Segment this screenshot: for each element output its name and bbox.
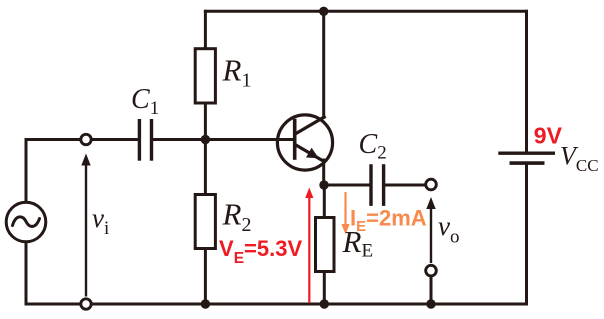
wire: R1 top from supply rail xyxy=(204,11,207,48)
svg-text:C2: C2 xyxy=(359,129,387,164)
svg-text:R1: R1 xyxy=(222,53,252,92)
resistor RE body xyxy=(316,218,335,272)
arrow VE (red, emitter voltage) xyxy=(305,188,313,304)
transistor Q1 body circle xyxy=(277,115,332,170)
wire: battery - down to ground rail xyxy=(525,165,528,304)
node: base node junction xyxy=(201,135,210,144)
svg-text:R2: R2 xyxy=(222,197,252,236)
AC source circle xyxy=(6,202,46,242)
node: RE at ground rail xyxy=(320,299,329,308)
svg-text:vi: vi xyxy=(92,203,109,239)
output terminal top (open circle) xyxy=(426,179,437,190)
wire: bottom ground rail xyxy=(26,303,527,306)
capacitor C2 left plate xyxy=(369,166,372,204)
wire: R2 bottom to ground rail xyxy=(204,249,207,305)
arrow vo (output voltage) xyxy=(426,197,435,263)
transistor emitter stroke xyxy=(296,145,325,162)
wire: C2 to output terminal xyxy=(384,184,431,187)
wire: R1 bottom to base node xyxy=(204,103,207,140)
svg-text:VE=5.3V: VE=5.3V xyxy=(219,236,302,267)
AC source sine symbol xyxy=(13,217,40,227)
transistor emitter arrowhead xyxy=(306,148,319,159)
node: collector joins supply rail xyxy=(319,7,328,16)
wire: AC source bottom to ground rail xyxy=(25,243,28,305)
capacitor C2 right plate xyxy=(382,166,385,204)
resistor R1 body xyxy=(195,49,215,103)
wire: collector up to supply rail xyxy=(322,11,325,117)
output terminal bottom (open circle) xyxy=(426,265,437,276)
battery VCC negative plate xyxy=(511,161,542,165)
svg-text:VCC: VCC xyxy=(560,141,599,175)
input terminal top (open circle) xyxy=(81,134,91,144)
arrow IE (orange, emitter current) xyxy=(341,192,349,235)
input terminal bottom (open circle) xyxy=(81,299,91,309)
battery VCC positive plate xyxy=(500,151,553,154)
node: output branch at ground rail xyxy=(426,299,435,308)
wire: emitter node down to RE xyxy=(323,185,326,218)
transistor collector stroke xyxy=(296,117,325,134)
wire: emitter down to emitter node xyxy=(322,160,325,185)
svg-text:9V: 9V xyxy=(534,123,563,149)
svg-text:C1: C1 xyxy=(131,84,159,119)
arrow vi (input voltage) xyxy=(81,154,90,297)
wire: base node down to R2 xyxy=(204,140,207,195)
capacitor C1 right plate xyxy=(150,121,153,159)
transistor base bar xyxy=(293,121,297,159)
resistor R2 body xyxy=(195,195,215,249)
capacitor C1 left plate xyxy=(138,121,141,159)
wire: RE bottom to ground rail xyxy=(323,272,326,305)
node: R2 at ground rail xyxy=(201,299,210,308)
svg-text:IE=2mA: IE=2mA xyxy=(350,205,427,235)
wire: right drop from rail to battery + xyxy=(525,11,528,151)
svg-text:vo: vo xyxy=(438,211,459,248)
wire: left branch, input node down to AC source top xyxy=(26,140,139,202)
wire: lower output terminal to ground rail xyxy=(430,276,433,304)
node: emitter node junction xyxy=(319,180,328,189)
wire: emitter node to C2 xyxy=(324,184,371,187)
wire: top supply rail xyxy=(205,10,526,13)
wire: C1 to transistor base xyxy=(152,138,293,141)
